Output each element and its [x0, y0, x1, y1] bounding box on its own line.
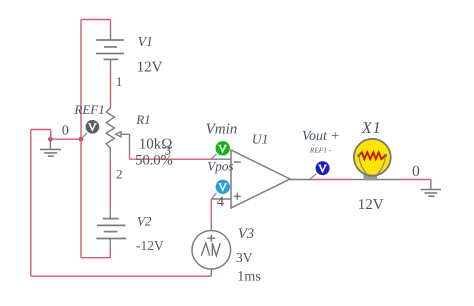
svg-text:REF1: REF1	[73, 102, 104, 117]
svg-text:1ms: 1ms	[237, 269, 261, 285]
svg-text:0: 0	[62, 123, 69, 138]
svg-text:U1: U1	[252, 131, 269, 146]
svg-text:2: 2	[116, 167, 123, 182]
svg-text:REF1 -: REF1 -	[309, 146, 332, 155]
svg-text:R1: R1	[135, 112, 150, 127]
svg-text:50.0%: 50.0%	[135, 152, 172, 168]
svg-text:Vout +: Vout +	[302, 129, 340, 144]
svg-text:4: 4	[217, 195, 224, 210]
svg-text:0: 0	[412, 163, 420, 180]
svg-text:V1: V1	[138, 34, 153, 49]
svg-text:V2: V2	[137, 214, 152, 229]
svg-text:Vpos: Vpos	[207, 158, 233, 173]
svg-text:Vmin: Vmin	[206, 121, 238, 137]
svg-text:V3: V3	[238, 226, 254, 242]
svg-text:12V: 12V	[358, 197, 384, 213]
svg-text:X1: X1	[361, 118, 382, 137]
svg-text:-12V: -12V	[136, 238, 164, 253]
svg-text:12V: 12V	[137, 60, 163, 76]
svg-text:1: 1	[116, 74, 123, 89]
svg-text:3V: 3V	[236, 250, 253, 265]
